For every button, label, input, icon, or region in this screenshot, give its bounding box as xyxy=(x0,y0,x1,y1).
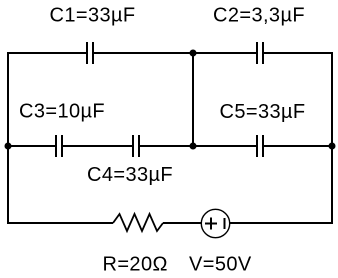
wire middle segment C3-C4 xyxy=(63,145,133,147)
wire middle segment C4-C5 xyxy=(140,145,257,147)
svg-text:C2=3,3µF: C2=3,3µF xyxy=(213,4,305,26)
wire top-left segment xyxy=(8,52,87,54)
wire left vertical xyxy=(7,52,9,224)
capacitor C4 xyxy=(133,135,139,157)
wire bottom-right segment xyxy=(230,222,332,224)
node top junction xyxy=(190,50,197,57)
svg-text:V=50V: V=50V xyxy=(189,253,252,275)
label C4 value xyxy=(87,164,173,186)
label C2 value xyxy=(213,4,305,26)
svg-text:C1=33µF: C1=33µF xyxy=(50,4,136,26)
wire bottom-middle segment xyxy=(163,222,202,224)
label C5 value xyxy=(220,101,306,123)
svg-text:C5=33µF: C5=33µF xyxy=(220,101,306,123)
wire right vertical xyxy=(331,52,333,224)
capacitor C3 xyxy=(56,135,62,157)
node middle-center junction xyxy=(190,143,197,150)
wire top-middle segment xyxy=(94,52,257,54)
label C3 value xyxy=(19,101,105,123)
node middle-left junction xyxy=(5,143,12,150)
label R value xyxy=(103,253,168,275)
label V value xyxy=(189,253,252,275)
label C1 value xyxy=(50,4,136,26)
capacitor C5 xyxy=(257,135,263,157)
wire middle-right segment xyxy=(264,145,333,147)
node middle-right junction xyxy=(329,143,336,150)
svg-text:C4=33µF: C4=33µF xyxy=(87,164,173,186)
voltage source V xyxy=(201,209,229,237)
wire top-right segment xyxy=(264,52,333,54)
capacitor C2 xyxy=(257,42,263,64)
svg-text:R=20Ω: R=20Ω xyxy=(103,253,168,275)
svg-text:C3=10µF: C3=10µF xyxy=(19,101,105,123)
wire middle vertical xyxy=(192,53,194,146)
wire middle-left segment xyxy=(8,145,56,147)
resistor R xyxy=(113,214,163,231)
capacitor C1 xyxy=(87,42,93,64)
wire bottom-left segment xyxy=(8,222,113,224)
